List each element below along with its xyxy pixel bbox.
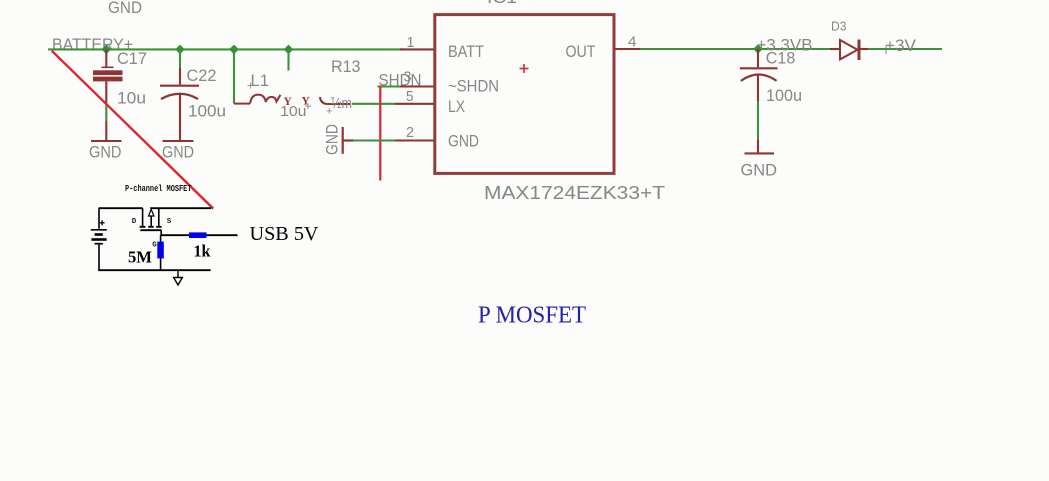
wire C18 to ground bbox=[757, 101, 759, 140]
capacitor C18 bbox=[740, 49, 778, 101]
pin stub ~SHDN pin 3 bbox=[400, 85, 434, 87]
svg-text:P MOSFET: P MOSFET bbox=[478, 303, 586, 329]
wire gate to bottom bbox=[160, 235, 162, 270]
svg-text:+3V: +3V bbox=[885, 37, 916, 55]
node junction at C17 bbox=[101, 45, 111, 55]
resistor 5M (blue) bbox=[157, 242, 164, 259]
svg-text:5: 5 bbox=[406, 89, 414, 105]
ground symbol sideways (pin 2) bbox=[343, 127, 353, 154]
wire: main battery net, BATT pin 1 bbox=[48, 48, 405, 50]
wire LX net bbox=[352, 103, 395, 105]
svg-text:GND: GND bbox=[162, 144, 194, 162]
svg-text:BATT: BATT bbox=[448, 43, 484, 61]
svg-text:+: + bbox=[326, 106, 332, 118]
capacitor C17 bbox=[93, 49, 123, 102]
svg-text:GND: GND bbox=[741, 162, 778, 180]
pin stub OUT pin 4 bbox=[614, 48, 640, 50]
transistor Q1 P-channel MOSFET bbox=[140, 208, 162, 230]
op-amp/IC U1 MAX1724 box bbox=[435, 15, 614, 174]
ground symbol C22 bbox=[163, 140, 194, 142]
wire +3V net bbox=[868, 48, 942, 50]
origin cross (red plus) bbox=[520, 64, 529, 73]
svg-text:10u: 10u bbox=[117, 90, 146, 108]
svg-text:100u: 100u bbox=[766, 87, 802, 105]
node junction at L1 branch bbox=[229, 45, 239, 55]
wire L1 branch vertical bbox=[233, 49, 235, 103]
svg-text:1k: 1k bbox=[194, 242, 212, 261]
svg-text:OUT: OUT bbox=[566, 43, 596, 61]
svg-text:GND: GND bbox=[108, 0, 142, 17]
svg-text:C17: C17 bbox=[117, 50, 147, 68]
svg-text:100u: 100u bbox=[188, 103, 226, 121]
battery B1 bbox=[91, 208, 107, 270]
highlight line vertical (red) bbox=[379, 86, 381, 181]
wire stub branch vertical bbox=[287, 49, 289, 70]
wire OUT net bbox=[640, 48, 830, 50]
highlight line diagonal (red) bbox=[52, 51, 214, 209]
ground (figure) bbox=[174, 270, 183, 285]
svg-text:+: + bbox=[247, 79, 254, 93]
svg-text:4: 4 bbox=[628, 35, 637, 51]
svg-text:Y: Y bbox=[284, 96, 293, 108]
svg-text:USB 5V: USB 5V bbox=[250, 223, 319, 245]
svg-text:GND: GND bbox=[324, 124, 342, 155]
svg-text:GND: GND bbox=[89, 144, 122, 162]
svg-text:5M: 5M bbox=[128, 248, 152, 267]
svg-text:LX: LX bbox=[448, 98, 465, 116]
node junction at stub branch bbox=[284, 45, 294, 55]
pin stub LX pin 5 bbox=[395, 103, 434, 105]
svg-text:C18: C18 bbox=[766, 50, 796, 68]
wire SHDN net bbox=[378, 85, 401, 87]
battery plus sign bbox=[100, 220, 105, 225]
mosfet figure: top wire left bbox=[99, 207, 143, 209]
capacitor C22 bbox=[160, 49, 199, 140]
wire to 1k bbox=[160, 234, 237, 236]
svg-text:IC1: IC1 bbox=[487, 0, 517, 7]
label origin tick bbox=[885, 46, 887, 54]
wire C17 to ground bbox=[105, 103, 107, 122]
wire bottom bbox=[98, 269, 210, 271]
svg-text:D3: D3 bbox=[831, 20, 847, 34]
node junction at C18 bbox=[753, 44, 763, 54]
svg-text:MAX1724EZK33+T: MAX1724EZK33+T bbox=[484, 182, 665, 203]
svg-text:+: + bbox=[305, 99, 312, 113]
diode D3 bbox=[830, 40, 868, 61]
wire gate down bbox=[160, 230, 162, 235]
svg-text:~SHDN: ~SHDN bbox=[448, 78, 499, 96]
pin stub GND pin 2 bbox=[395, 139, 434, 141]
mosfet figure: top wire right bbox=[150, 207, 211, 209]
svg-text:½m: ½m bbox=[331, 95, 352, 112]
svg-text:S: S bbox=[167, 218, 172, 226]
resistor 1k (blue) bbox=[189, 232, 207, 238]
pin stub BATT pin 1 bbox=[400, 48, 434, 50]
svg-text:3: 3 bbox=[404, 70, 412, 86]
svg-text:1: 1 bbox=[407, 35, 415, 51]
svg-text:2: 2 bbox=[406, 125, 414, 141]
svg-text:GND: GND bbox=[448, 133, 479, 151]
svg-text:P-channel MOSFET: P-channel MOSFET bbox=[125, 183, 192, 194]
ground symbol C18 bbox=[745, 140, 775, 153]
svg-text:C22: C22 bbox=[187, 67, 217, 85]
svg-text:R13: R13 bbox=[331, 58, 361, 76]
R13 lead hook bbox=[320, 97, 350, 104]
svg-text:G: G bbox=[152, 242, 157, 250]
node junction at C22 bbox=[175, 45, 185, 55]
wire GND net to pin 2 bbox=[353, 139, 395, 141]
inductor L1 bbox=[234, 95, 281, 104]
svg-text:D: D bbox=[132, 218, 137, 226]
ground symbol C17 bbox=[91, 121, 122, 141]
